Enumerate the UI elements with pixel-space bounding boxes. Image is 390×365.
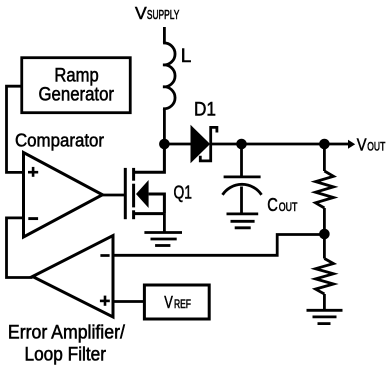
wire node C to VOUT arrow	[324, 143, 348, 146]
svg-text:V: V	[164, 292, 173, 312]
resistor R2 lower divider	[316, 259, 334, 295]
body tap	[149, 194, 165, 214]
wire VSUPPLY to inductor L	[163, 27, 166, 44]
wire node B to node C	[242, 143, 325, 146]
ground under divider	[307, 310, 343, 323]
body diode arrow of Q1	[136, 180, 149, 208]
wire node D to resistor R2	[323, 234, 326, 259]
capacitor COUT	[223, 177, 262, 195]
wire node C to resistor R1	[323, 144, 326, 171]
wire Q1 source to ground	[163, 214, 166, 233]
channel segments	[132, 168, 135, 181]
feedback wire node D to error amplifier minus input	[113, 235, 324, 256]
svg-text:OUT: OUT	[279, 200, 298, 214]
svg-text:REF: REF	[174, 299, 191, 311]
wire ramp generator to comparator plus input	[7, 86, 24, 172]
resistor R1 upper divider	[316, 171, 334, 208]
svg-text:OUT: OUT	[367, 139, 385, 153]
wire node B to capacitor COUT	[240, 144, 243, 177]
svg-text:D1: D1	[194, 99, 216, 121]
wire inductor L to node A	[163, 108, 166, 144]
ground under Q1	[144, 233, 182, 246]
comparator plus input symbol	[28, 167, 38, 177]
op-amp error amplifier	[33, 236, 114, 317]
svg-text:Error Amplifier/: Error Amplifier/	[8, 323, 126, 344]
svg-text:C: C	[267, 194, 278, 215]
svg-text:Q1: Q1	[174, 182, 193, 203]
svg-text:L: L	[181, 46, 192, 67]
drain tap	[134, 144, 165, 172]
wire comparator output to Q1 gate	[103, 194, 126, 197]
op-amp comparator	[24, 153, 103, 238]
svg-text:SUPPLY: SUPPLY	[147, 8, 180, 22]
svg-text:Generator: Generator	[39, 84, 115, 105]
ground under COUT	[227, 214, 259, 228]
wire resistor R2 to ground	[323, 294, 326, 310]
comparator minus input symbol	[28, 217, 38, 220]
error amplifier minus input symbol	[100, 254, 109, 257]
svg-text:Ramp: Ramp	[54, 65, 98, 86]
svg-text:Comparator: Comparator	[15, 130, 104, 151]
box Ramp Generator	[22, 58, 131, 113]
wire D1 cathode to node B	[211, 143, 242, 146]
wire error amp output to comparator minus input	[7, 218, 33, 278]
wire capacitor COUT to ground	[240, 187, 243, 214]
svg-text:Loop Filter: Loop Filter	[25, 345, 107, 365]
node D junction dot	[319, 229, 330, 240]
source tap	[134, 212, 165, 215]
wire VREF to error amp plus input	[113, 300, 144, 303]
svg-text:V: V	[135, 3, 147, 23]
gate bar	[124, 168, 127, 219]
node C junction dot	[319, 139, 330, 150]
wire resistor R1 to node D	[323, 208, 326, 234]
box VREF	[144, 285, 209, 319]
svg-text:V: V	[357, 134, 367, 154]
node B junction dot	[236, 139, 247, 150]
error amplifier plus input symbol	[100, 296, 110, 306]
inductor L	[163, 43, 175, 109]
diode D1 Schottky	[191, 126, 217, 162]
wire node A to D1 anode	[164, 143, 191, 146]
node A junction dot	[159, 139, 170, 150]
transistor Q1 MOSFET	[125, 144, 164, 219]
